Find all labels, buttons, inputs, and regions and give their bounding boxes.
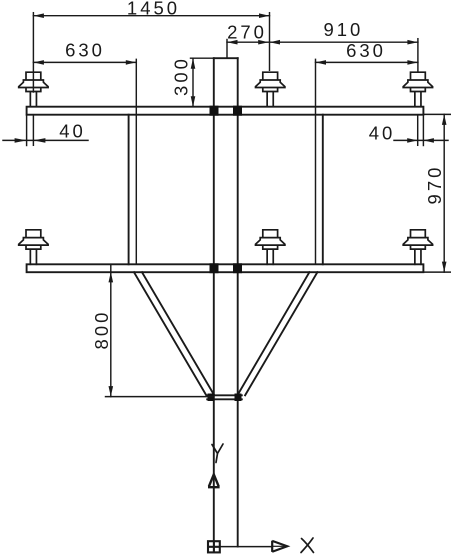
svg-text:40: 40 — [369, 123, 396, 144]
svg-text:300: 300 — [170, 56, 191, 96]
svg-text:40: 40 — [59, 121, 86, 142]
svg-text:800: 800 — [91, 310, 112, 350]
svg-text:630: 630 — [346, 40, 386, 61]
svg-text:630: 630 — [65, 40, 105, 61]
svg-text:270: 270 — [227, 22, 267, 43]
svg-text:910: 910 — [323, 19, 363, 40]
svg-text:970: 970 — [424, 165, 445, 205]
svg-text:1450: 1450 — [127, 0, 180, 19]
